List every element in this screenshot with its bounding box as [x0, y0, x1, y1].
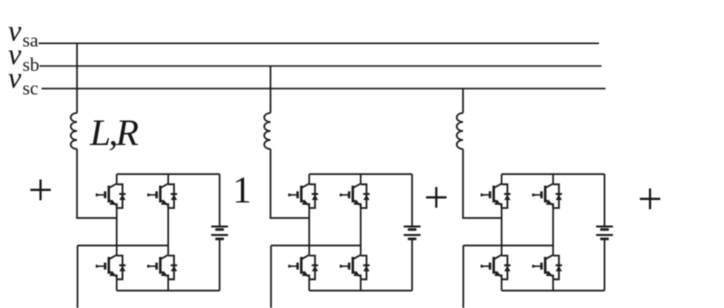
svg-text:1: 1	[233, 170, 252, 212]
svg-text:v: v	[8, 61, 22, 94]
svg-text:+: +	[28, 166, 53, 215]
svg-text:+: +	[638, 174, 663, 223]
svg-text:sa: sa	[23, 31, 39, 52]
svg-text:sb: sb	[23, 55, 40, 76]
svg-text:sc: sc	[23, 79, 39, 100]
svg-text:L,R: L,R	[89, 113, 139, 154]
svg-text:+: +	[424, 173, 449, 222]
